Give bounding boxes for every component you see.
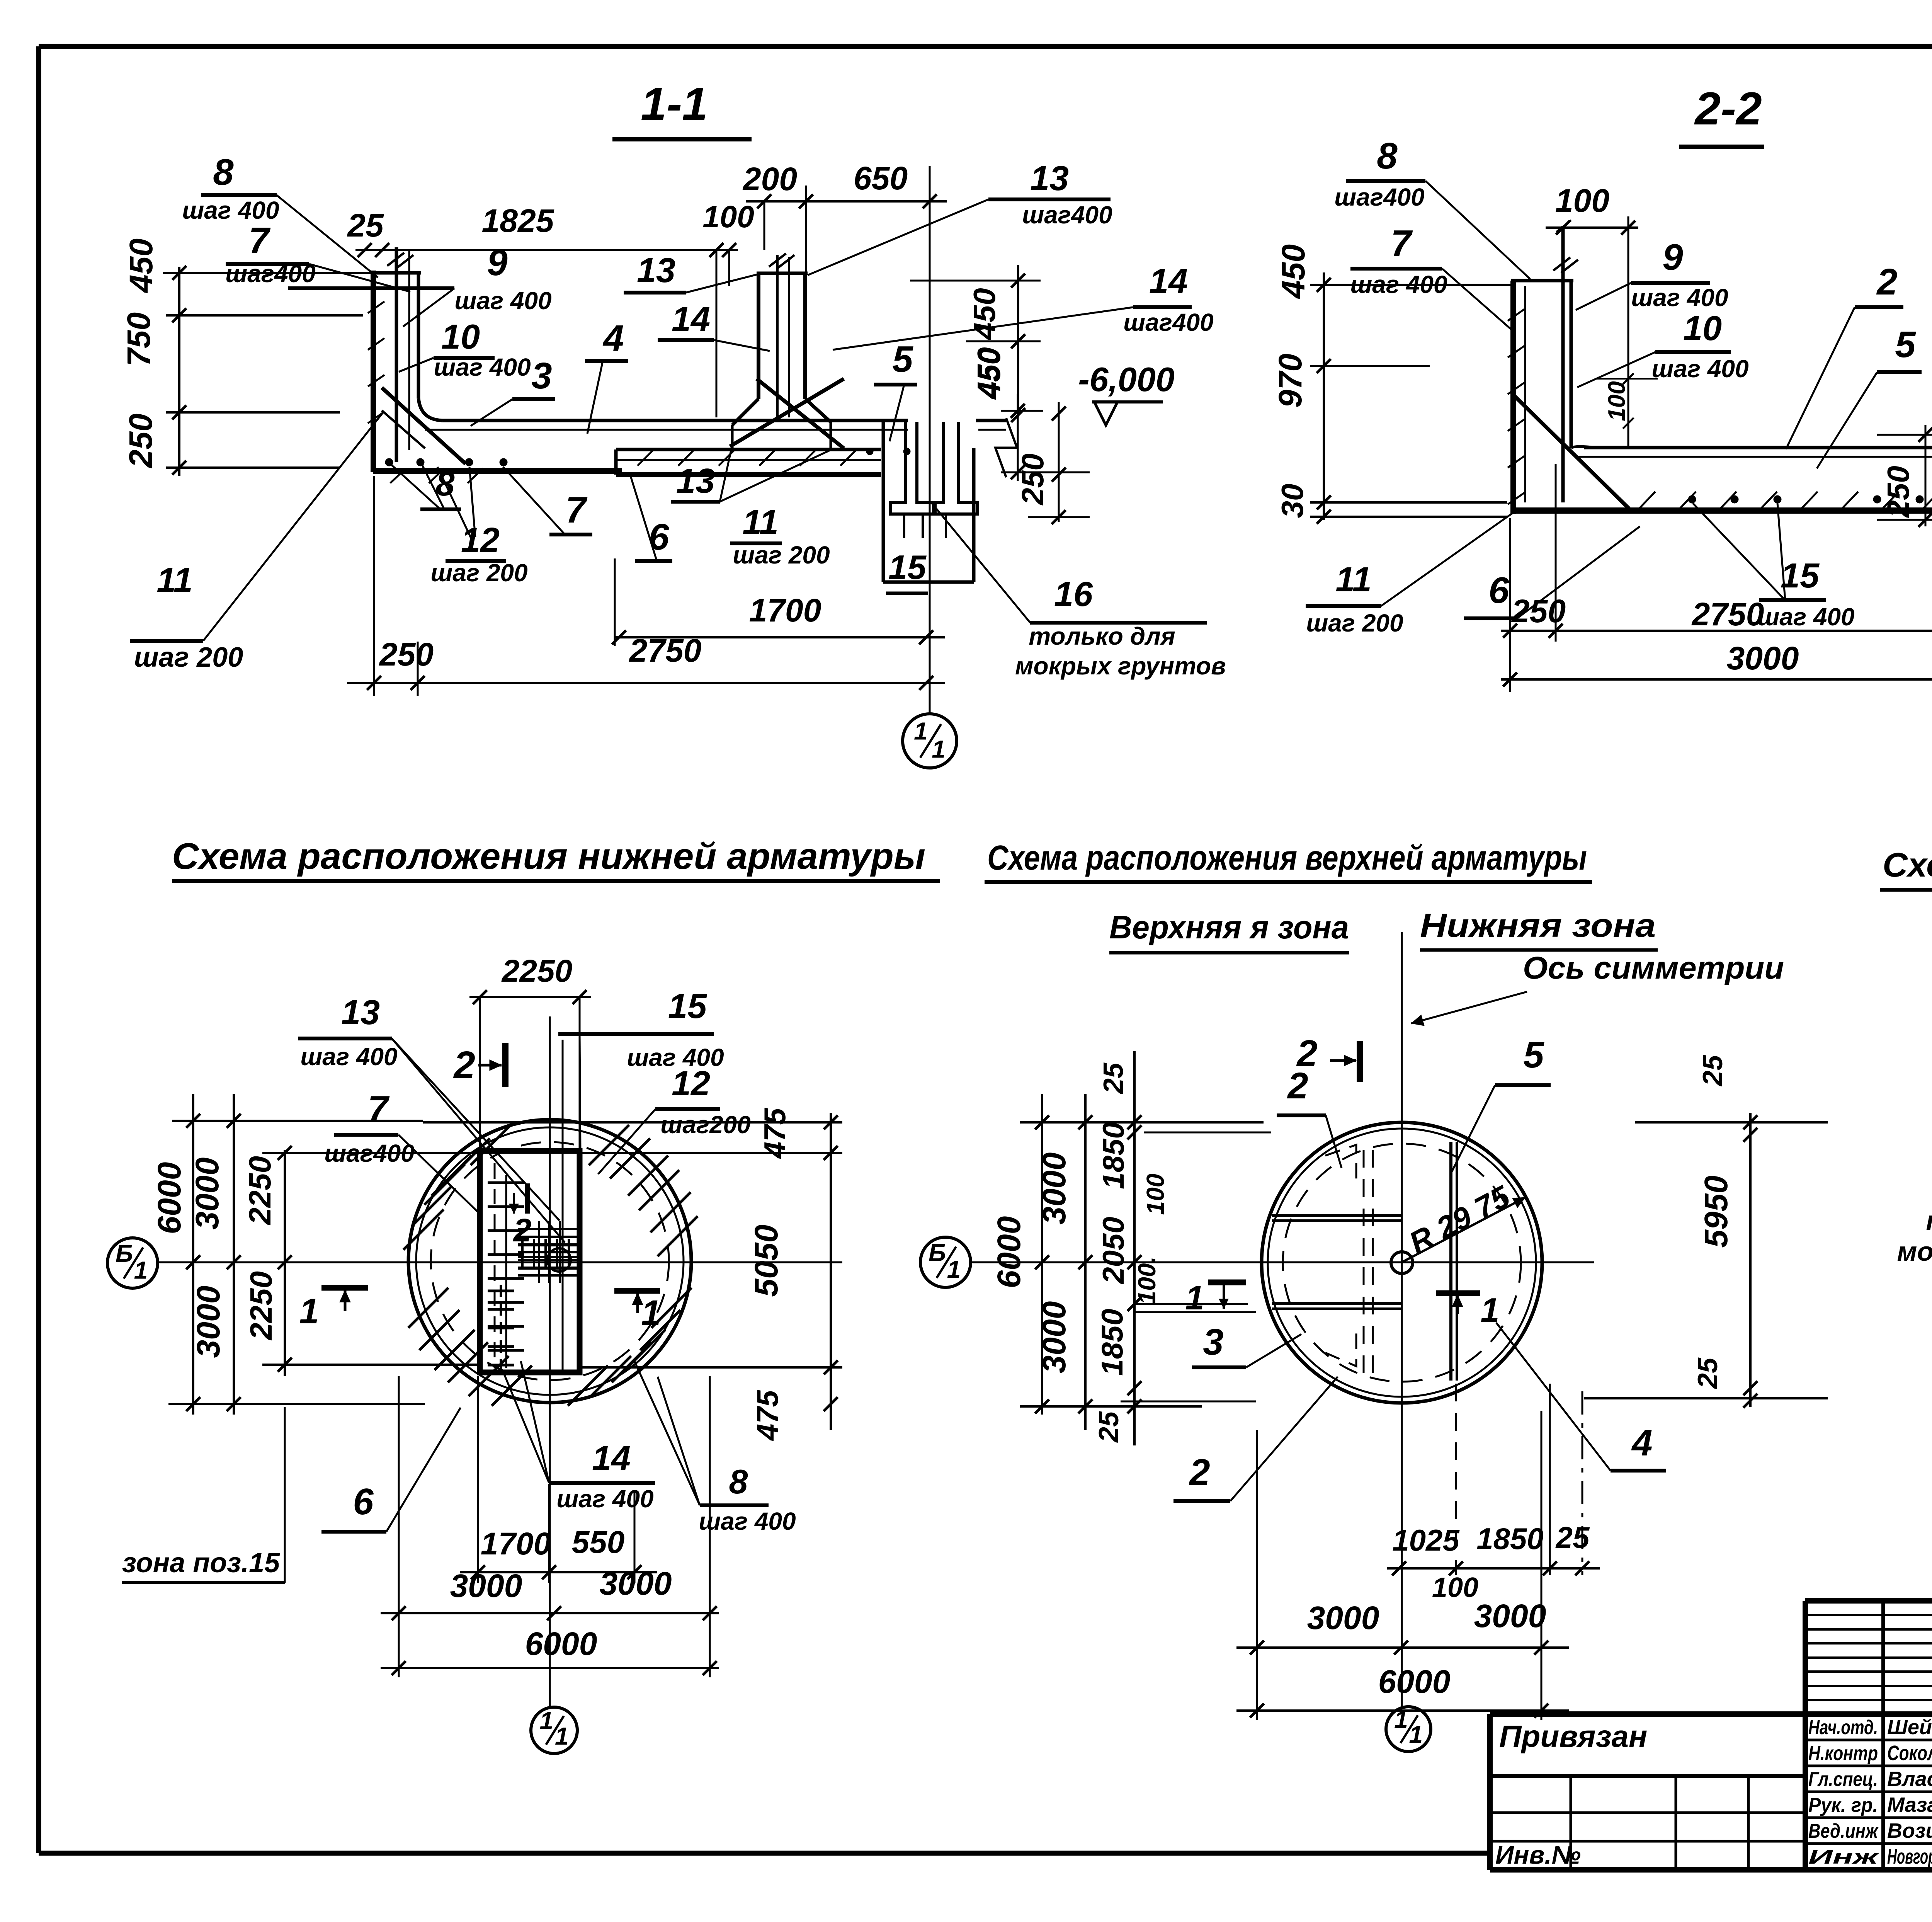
svg-text:450: 450 [123,238,159,293]
svg-text:3000: 3000 [1036,1153,1072,1225]
svg-text:16: 16 [1054,575,1093,614]
svg-text:шаг 200: шаг 200 [134,642,243,673]
svg-text:475: 475 [750,1389,784,1441]
svg-text:Привязан: Привязан [1499,1719,1647,1753]
svg-text:2050: 2050 [1096,1217,1130,1285]
svg-text:100: 100 [1432,1572,1478,1603]
svg-text:2: 2 [1287,1065,1308,1107]
svg-text:6: 6 [648,516,669,558]
svg-text:100: 100 [702,199,754,234]
svg-text:Б: Б [116,1239,133,1267]
svg-text:11: 11 [1335,560,1371,599]
svg-text:1700: 1700 [749,592,821,628]
svg-text:25: 25 [1098,1062,1129,1095]
svg-text:Шейко: Шейко [1887,1716,1932,1739]
svg-text:1: 1 [539,1707,553,1735]
svg-text:шаг400: шаг400 [1022,201,1112,229]
svg-text:5950: 5950 [1698,1176,1734,1248]
svg-text:шаг400: шаг400 [1123,308,1213,336]
svg-text:Б: Б [929,1239,946,1267]
svg-text:10: 10 [441,318,480,356]
svg-text:250: 250 [1881,466,1915,518]
svg-text:Власенко: Власенко [1887,1767,1932,1791]
svg-text:7: 7 [565,489,588,531]
svg-text:2250: 2250 [244,1271,278,1341]
svg-text:мокрых грунтов: мокрых грунтов [1015,652,1226,680]
svg-text:1: 1 [1409,1721,1423,1748]
svg-text:3000: 3000 [1474,1598,1546,1634]
svg-text:6000: 6000 [991,1216,1027,1289]
svg-text:1: 1 [914,717,928,745]
svg-text:Возианов: Возианов [1887,1819,1932,1842]
svg-text:5: 5 [1523,1034,1544,1076]
svg-text:шаг 400: шаг 400 [1651,355,1748,383]
svg-text:Инв.№: Инв.№ [1495,1840,1581,1869]
svg-text:1: 1 [1185,1278,1204,1317]
svg-text:13: 13 [676,462,715,501]
svg-text:1025: 1025 [1392,1523,1460,1557]
svg-text:Гл.спец.: Гл.спец. [1808,1768,1878,1791]
svg-text:5050: 5050 [748,1225,784,1297]
svg-text:Мазалова: Мазалова [1887,1793,1932,1816]
svg-text:13: 13 [341,993,380,1032]
svg-text:1-1: 1-1 [641,78,707,130]
svg-text:250: 250 [1511,593,1566,629]
svg-text:3000: 3000 [1307,1600,1379,1636]
svg-text:1: 1 [299,1292,319,1331]
svg-text:450: 450 [967,288,1002,340]
svg-text:1: 1 [555,1722,569,1750]
svg-text:Сокольская: Сокольская [1887,1742,1932,1765]
svg-text:1825: 1825 [482,203,554,239]
svg-text:3000: 3000 [1727,640,1799,676]
svg-text:15: 15 [1781,557,1820,595]
svg-text:шаг400: шаг400 [225,260,315,288]
svg-text:100: 100 [1604,381,1630,421]
svg-text:зона поз.15: зона поз.15 [122,1547,280,1578]
svg-text:шаг 400: шаг 400 [300,1043,397,1071]
svg-text:9: 9 [1662,237,1683,278]
svg-text:Н.контр: Н.контр [1808,1742,1878,1765]
svg-text:15: 15 [888,548,927,586]
svg-text:14: 14 [672,300,710,339]
svg-text:6: 6 [1488,570,1509,611]
svg-text:7: 7 [248,220,271,261]
svg-text:1850: 1850 [1095,1309,1129,1376]
svg-text:6: 6 [353,1481,374,1522]
svg-text:мокрых грунтов: мокрых грунтов [1897,1236,1932,1267]
svg-text:5: 5 [892,339,913,380]
svg-text:1: 1 [947,1255,961,1283]
svg-text:450: 450 [1275,244,1311,299]
svg-text:550: 550 [572,1525,625,1560]
svg-text:1850: 1850 [1096,1122,1130,1189]
svg-text:шаг 400: шаг 400 [1350,271,1447,298]
svg-text:30: 30 [1275,484,1310,518]
svg-text:2: 2 [1876,261,1897,303]
svg-text:Нач.отд.: Нач.отд. [1808,1716,1878,1739]
svg-text:250: 250 [122,414,159,468]
svg-text:Верхняя я зона: Верхняя я зона [1109,909,1349,945]
svg-text:Схема расположения дренажного: Схема расположения дренажного приямка [1883,846,1932,884]
svg-text:1: 1 [1394,1706,1408,1733]
svg-text:Рук. гр.: Рук. гр. [1808,1794,1878,1816]
svg-text:10: 10 [1683,309,1722,348]
svg-text:25: 25 [1555,1520,1590,1554]
svg-text:650: 650 [854,160,908,196]
svg-text:7: 7 [367,1088,390,1130]
svg-text:2250: 2250 [243,1156,277,1226]
svg-text:3000: 3000 [1036,1301,1072,1374]
svg-text:6000: 6000 [151,1162,187,1234]
svg-text:шаг 400: шаг 400 [699,1507,796,1535]
svg-text:2-2: 2-2 [1694,83,1762,134]
svg-text:13: 13 [1030,159,1069,198]
svg-text:2250: 2250 [501,953,572,989]
svg-text:1: 1 [134,1256,148,1284]
svg-text:14: 14 [1149,262,1188,301]
svg-text:25: 25 [347,207,384,243]
svg-text:Новгородцева: Новгородцева [1887,1845,1932,1868]
svg-text:шаг 200: шаг 200 [430,559,527,587]
svg-text:шаг 200: шаг 200 [1306,609,1403,637]
svg-text:25: 25 [1692,1357,1723,1389]
svg-text:1850: 1850 [1476,1522,1544,1556]
svg-text:15: 15 [668,987,707,1026]
svg-text:3: 3 [531,355,552,397]
svg-text:750: 750 [121,312,157,366]
svg-text:шаг 400: шаг 400 [1631,284,1728,312]
svg-text:11: 11 [742,503,778,542]
svg-text:13: 13 [637,251,675,290]
svg-text:8: 8 [729,1462,748,1501]
svg-text:250: 250 [379,636,434,672]
svg-text:8: 8 [213,152,234,193]
svg-text:200: 200 [742,161,797,197]
svg-text:9: 9 [487,242,507,283]
svg-text:шаг400: шаг400 [1334,183,1424,211]
svg-text:4: 4 [1631,1422,1652,1464]
svg-text:25: 25 [1697,1055,1728,1087]
svg-text:Схема расположения нижней арм: Схема расположения нижней арматуры [172,836,925,877]
svg-text:шаг 400: шаг 400 [1757,603,1854,631]
svg-text:Схема расположения верхней: Схема расположения верхней арматуры [987,839,1587,877]
svg-text:7: 7 [1391,223,1413,264]
svg-text:шаг400: шаг400 [324,1139,414,1167]
svg-text:6000: 6000 [1378,1663,1451,1700]
svg-text:12: 12 [672,1064,710,1103]
svg-text:1: 1 [932,735,946,763]
svg-text:2: 2 [1189,1452,1210,1493]
svg-text:3000: 3000 [450,1568,522,1604]
svg-text:3000: 3000 [189,1158,225,1230]
svg-text:3000: 3000 [600,1565,672,1602]
svg-text:2: 2 [453,1044,475,1087]
svg-text:Ось симметрии: Ось симметрии [1523,950,1784,986]
svg-text:3: 3 [1203,1321,1223,1363]
svg-text:4: 4 [602,318,624,359]
svg-text:250: 250 [1015,453,1050,506]
svg-text:Вед.инж: Вед.инж [1808,1820,1879,1842]
svg-text:6000: 6000 [525,1626,597,1662]
svg-text:только для: только для [1926,1205,1932,1236]
svg-text:шаг 400: шаг 400 [556,1485,653,1513]
svg-text:Нижняя зона: Нижняя зона [1420,907,1656,944]
svg-text:1: 1 [641,1293,661,1333]
svg-text:14: 14 [592,1439,631,1478]
svg-text:шаг200: шаг200 [660,1111,750,1139]
svg-text:2750: 2750 [1691,596,1764,632]
svg-text:шаг 400: шаг 400 [454,287,551,315]
svg-text:1700: 1700 [481,1526,551,1561]
svg-text:Инж: Инж [1808,1846,1880,1868]
svg-text:100: 100 [1555,182,1609,219]
svg-text:8: 8 [1377,135,1398,177]
svg-text:100: 100 [1141,1174,1169,1215]
svg-text:2: 2 [513,1212,532,1248]
svg-text:5: 5 [1895,324,1916,365]
svg-text:25: 25 [1094,1411,1124,1443]
svg-text:шаг 400: шаг 400 [434,353,531,381]
svg-text:450: 450 [972,347,1007,400]
svg-text:970: 970 [1272,354,1308,408]
svg-text:3000: 3000 [190,1286,226,1358]
svg-text:11: 11 [156,561,192,600]
svg-text:только для: только для [1029,622,1175,650]
svg-text:475: 475 [758,1107,792,1159]
svg-text:-6,000: -6,000 [1078,360,1175,398]
svg-text:100.: 100. [1133,1256,1161,1305]
svg-text:шаг 200: шаг 200 [733,541,830,569]
